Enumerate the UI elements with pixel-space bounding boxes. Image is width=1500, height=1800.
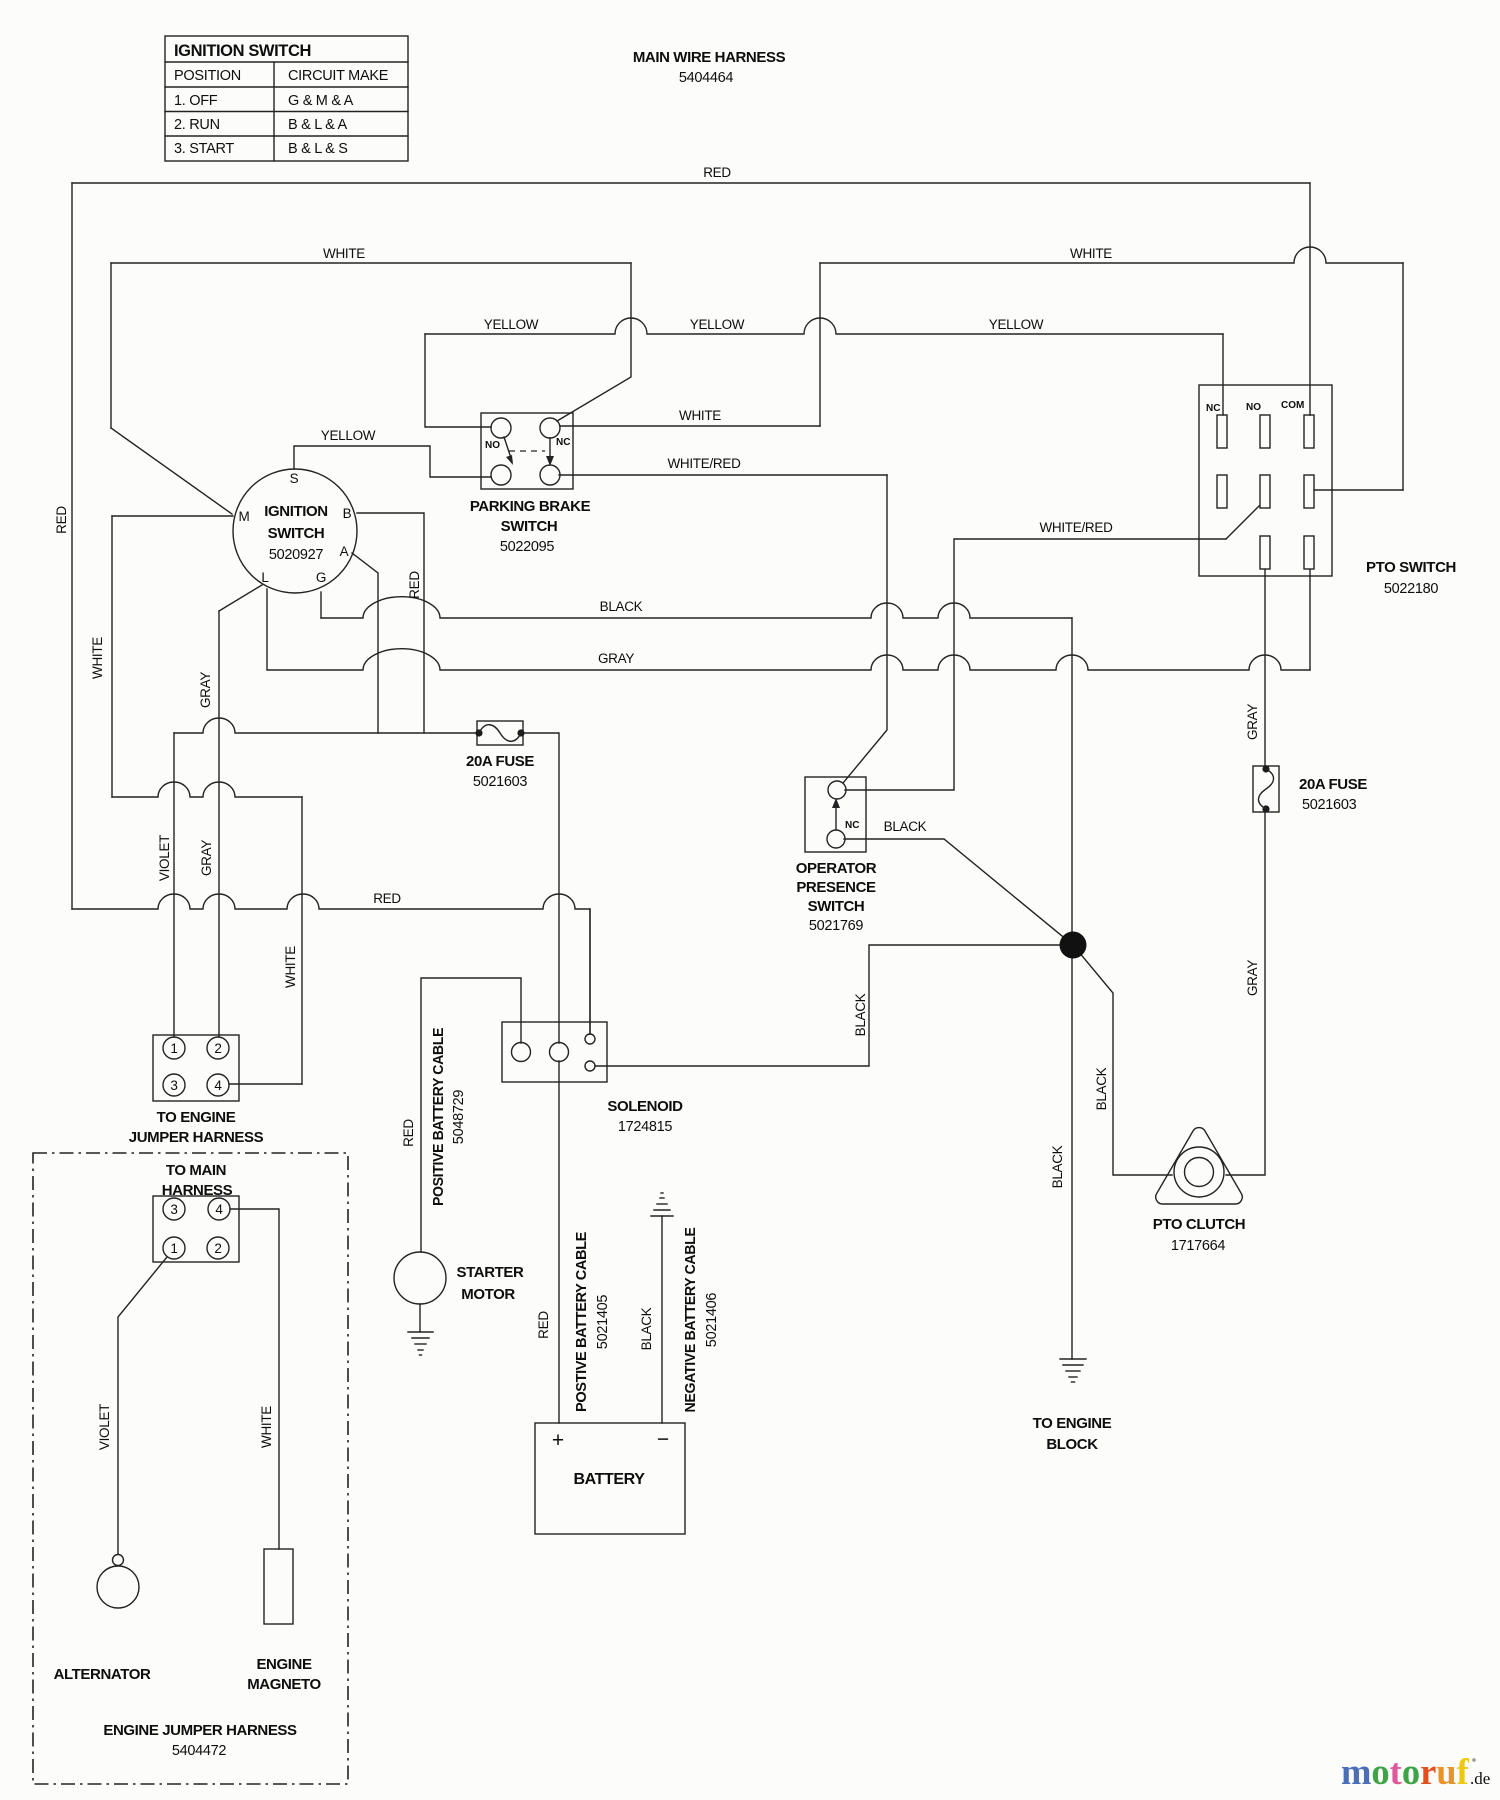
engine jumper harness dash-dot box <box>33 1153 348 1784</box>
wire WHITE vertical x820 up <box>819 263 821 426</box>
arrow up <box>835 804 837 830</box>
svg-text:ENGINE: ENGINE <box>256 1656 312 1673</box>
connector J2 to main harness <box>153 1196 239 1262</box>
svg-text:G & M & A: G & M & A <box>288 93 354 109</box>
wire RED left vertical <box>71 183 73 909</box>
svg-text:TO ENGINE: TO ENGINE <box>1033 1415 1112 1432</box>
svg-text:NC: NC <box>845 820 859 831</box>
svg-text:MAGNETO: MAGNETO <box>247 1676 321 1693</box>
starter motor M1 <box>394 1252 446 1304</box>
svg-text:5020927: 5020927 <box>269 547 324 563</box>
svg-text:5021603: 5021603 <box>473 774 528 790</box>
ground negative battery cable (inverted) <box>651 1193 673 1216</box>
wire connector1 pin4 to white vertical <box>229 1083 302 1085</box>
svg-text:BLACK: BLACK <box>1094 1067 1109 1110</box>
svg-text:2: 2 <box>214 1241 221 1256</box>
wire WHITE right horizontal (bump over RED x1310) <box>820 247 1403 263</box>
svg-text:COM: COM <box>1281 400 1304 411</box>
wire RED right vertical to PTO COM top pin <box>1309 183 1311 415</box>
svg-text:GRAY: GRAY <box>1245 704 1260 740</box>
svg-text:NO: NO <box>485 440 500 451</box>
svg-text:VIOLET: VIOLET <box>157 835 172 881</box>
svg-text:−: − <box>657 1428 669 1451</box>
wire WHITE vertical x302 <box>301 797 303 1084</box>
svg-text:SOLENOID: SOLENOID <box>607 1098 683 1115</box>
wire WHITE/RED from parking brake to x887 <box>559 474 887 476</box>
svg-text:5021406: 5021406 <box>704 1293 720 1348</box>
wire GRAY from ignition L horizontal y670 (bumps) <box>268 649 1310 670</box>
wire operator presence NC to junction diagonal <box>844 839 1073 945</box>
svg-text:WHITE: WHITE <box>90 637 105 679</box>
svg-text:PARKING BRAKE: PARKING BRAKE <box>470 498 591 515</box>
wire YELLOW vertical left into parking brake NO <box>425 334 491 427</box>
svg-text:BLACK: BLACK <box>639 1307 654 1350</box>
svg-text:1: 1 <box>170 1241 177 1256</box>
svg-text:20A FUSE: 20A FUSE <box>1299 776 1367 793</box>
svg-text:OPERATOR: OPERATOR <box>796 860 877 877</box>
svg-text:WHITE: WHITE <box>679 408 721 423</box>
wire GRAY vertical x219 to connector1 pin2 <box>218 611 220 1037</box>
svg-text:S: S <box>290 471 299 486</box>
svg-text:5048729: 5048729 <box>451 1090 467 1145</box>
svg-text:WHITE/RED: WHITE/RED <box>667 456 741 471</box>
svg-text:YELLOW: YELLOW <box>321 428 376 443</box>
NC arrow <box>549 438 551 460</box>
wire YELLOW right vertical into PTO NC pin <box>1222 334 1224 415</box>
wire WHITE left vertical upper <box>110 263 112 428</box>
wire WHITE vertical x112 down <box>111 516 113 797</box>
pins top row <box>1217 415 1227 448</box>
pins middle row <box>1217 475 1227 508</box>
wire BLACK vertical x1072 to junction <box>1071 618 1073 932</box>
ignition switch IGN1 circle <box>233 469 357 593</box>
ignition switch table <box>165 36 408 161</box>
svg-text:motoruf: motoruf <box>1341 1751 1470 1792</box>
wire YELLOW from ignition S <box>294 446 491 477</box>
svg-text:ALTERNATOR: ALTERNATOR <box>54 1666 151 1683</box>
wire WHITE/RED vertical x887 and diagonal to operator presence switch <box>843 475 887 783</box>
wire WHITE vertical x631 and diagonal to parking brake NC <box>557 263 631 421</box>
svg-text:1. OFF: 1. OFF <box>174 93 218 109</box>
svg-text:MOTOR: MOTOR <box>461 1286 515 1303</box>
engine magneto T1 <box>264 1549 293 1624</box>
wire solenoid right pin to junction (BLACK) <box>595 945 1059 1066</box>
svg-text:.de: .de <box>1470 1769 1490 1788</box>
svg-text:WHITE: WHITE <box>1070 246 1112 261</box>
wire GRAY fuse2 to PTO clutch <box>1226 812 1265 1175</box>
svg-text:WHITE: WHITE <box>259 1406 274 1448</box>
svg-text:BATTERY: BATTERY <box>574 1471 646 1488</box>
wire ignition L vertical to gray <box>266 589 268 670</box>
svg-text:RED: RED <box>407 571 422 599</box>
ground under starter motor <box>408 1332 433 1355</box>
wire RED top horizontal <box>72 182 1310 184</box>
svg-text:POSTIVE BATTERY CABLE: POSTIVE BATTERY CABLE <box>573 1232 590 1412</box>
svg-text:POSITIVE BATTERY CABLE: POSITIVE BATTERY CABLE <box>430 1028 447 1206</box>
wire ignition G vertical <box>320 592 322 618</box>
svg-text:BLACK: BLACK <box>1050 1145 1065 1188</box>
svg-text:SWITCH: SWITCH <box>808 898 865 915</box>
20A fuse F1 <box>475 721 524 745</box>
wire positive battery cable solenoid to starter <box>421 978 521 1252</box>
svg-text:YELLOW: YELLOW <box>989 317 1044 332</box>
svg-text:G: G <box>316 570 326 585</box>
svg-text:1: 1 <box>170 1041 177 1056</box>
svg-text:ENGINE JUMPER HARNESS: ENGINE JUMPER HARNESS <box>103 1722 297 1739</box>
svg-text:STARTER: STARTER <box>457 1264 524 1281</box>
svg-text:L: L <box>261 570 269 585</box>
svg-text:5404464: 5404464 <box>679 70 734 86</box>
wire ignition B horizontal and RED vertical x424 <box>357 513 424 733</box>
wire WHITE from parking brake NC to right <box>560 425 820 427</box>
svg-text:B & L & S: B & L & S <box>288 141 348 157</box>
svg-text:5021769: 5021769 <box>809 918 864 934</box>
svg-text:4: 4 <box>214 1078 222 1093</box>
PTO clutch L1 <box>1156 1128 1243 1204</box>
svg-text:GRAY: GRAY <box>1245 960 1260 996</box>
wire WHITE diagonal to ignition M <box>111 428 232 514</box>
svg-text:PTO CLUTCH: PTO CLUTCH <box>1153 1216 1245 1233</box>
pins bottom row <box>1260 536 1270 569</box>
svg-text:BLACK: BLACK <box>884 819 927 834</box>
solenoid K1 <box>502 1022 607 1082</box>
operator presence switch SW2 <box>805 777 866 852</box>
wire ignition L diagonal to GRAY vertical <box>219 585 262 611</box>
svg-text:SWITCH: SWITCH <box>501 518 558 535</box>
wire RED vertical x590 to solenoid small pin <box>589 909 591 1034</box>
svg-text:TO MAIN: TO MAIN <box>166 1162 226 1179</box>
svg-text:4: 4 <box>215 1202 223 1217</box>
wire junction diagonal to PTO clutch BLACK <box>1073 945 1172 1175</box>
svg-text:POSITION: POSITION <box>174 68 241 84</box>
svg-text:PTO SWITCH: PTO SWITCH <box>1366 559 1456 576</box>
wire fuse1 output to solenoid <box>523 733 559 1043</box>
alternator G1 <box>97 1555 139 1609</box>
svg-text:BLACK: BLACK <box>853 993 868 1036</box>
svg-text:IGNITION: IGNITION <box>264 503 327 520</box>
svg-text:WHITE/RED: WHITE/RED <box>1039 520 1113 535</box>
20A fuse F2 <box>1253 765 1279 812</box>
svg-text:5404472: 5404472 <box>172 1743 227 1759</box>
parking brake switch SW1 <box>481 413 573 489</box>
battery BT1 <box>535 1423 685 1534</box>
wire negative battery cable <box>661 1216 663 1423</box>
svg-text:NEGATIVE BATTERY CABLE: NEGATIVE BATTERY CABLE <box>682 1227 699 1412</box>
wire PTO COM middle pin to white vertical <box>1314 489 1403 491</box>
wire connector2 pin1 to alternator VIOLET <box>118 1257 167 1554</box>
wire WHITE horizontal y797 (bumps over VIOLET, GRAY) <box>112 782 302 797</box>
svg-text:NC: NC <box>556 437 570 448</box>
svg-text:+: + <box>552 1429 564 1452</box>
svg-text:20A FUSE: 20A FUSE <box>466 753 534 770</box>
wire ignition A diagonal and vertical <box>352 553 378 733</box>
svg-text:3: 3 <box>170 1202 177 1217</box>
wire GRAY vertical to PTO bottom pin col3 <box>1309 570 1311 670</box>
svg-text:2: 2 <box>214 1041 221 1056</box>
svg-text:WHITE: WHITE <box>283 946 298 988</box>
svg-text:HARNESS: HARNESS <box>162 1182 233 1199</box>
svg-text:VIOLET: VIOLET <box>97 1404 112 1450</box>
svg-text:SWITCH: SWITCH <box>268 525 325 542</box>
svg-text:B & L & A: B & L & A <box>288 117 347 133</box>
svg-text:1717664: 1717664 <box>1171 1238 1226 1254</box>
svg-text:5021405: 5021405 <box>595 1295 611 1350</box>
svg-text:5022180: 5022180 <box>1384 581 1439 597</box>
svg-text:5022095: 5022095 <box>500 539 555 555</box>
ground engine block <box>1060 1359 1086 1382</box>
svg-text:GRAY: GRAY <box>598 651 634 666</box>
svg-text:MAIN WIRE HARNESS: MAIN WIRE HARNESS <box>633 49 786 66</box>
dashed coupling <box>509 450 545 452</box>
svg-text:BLOCK: BLOCK <box>1046 1436 1098 1453</box>
junction dot (black node) <box>1060 932 1087 959</box>
wire starter motor to ground <box>419 1304 421 1332</box>
svg-text:B: B <box>343 506 352 521</box>
svg-text:RED: RED <box>373 891 401 906</box>
wire fuse feed horizontal y733 (bump over GRAY x219) <box>174 718 477 733</box>
svg-text:JUMPER HARNESS: JUMPER HARNESS <box>129 1129 264 1146</box>
svg-text:WHITE: WHITE <box>323 246 365 261</box>
wire WHITE left horizontal <box>111 262 631 264</box>
svg-text:5021603: 5021603 <box>1302 797 1357 813</box>
wire VIOLET vertical x174 from connector1 pin1 <box>173 733 175 1037</box>
wire YELLOW upper horizontal (bumps over x631, x820) <box>425 318 1223 334</box>
svg-text:RED: RED <box>703 165 731 180</box>
svg-text:RED: RED <box>536 1311 551 1339</box>
svg-text:GRAY: GRAY <box>199 840 214 876</box>
svg-text:RED: RED <box>401 1119 416 1147</box>
svg-text:YELLOW: YELLOW <box>484 317 539 332</box>
svg-text:1724815: 1724815 <box>618 1119 673 1135</box>
svg-text:PRESENCE: PRESENCE <box>796 879 876 896</box>
svg-text:TO ENGINE: TO ENGINE <box>157 1109 236 1126</box>
connector J1 to engine jumper harness <box>153 1035 239 1101</box>
svg-text:M: M <box>239 509 250 524</box>
wire BLACK from ignition G horizontal y618 (wide bump over A,B wires; bumps x888,x954) <box>321 597 1072 618</box>
wire M terminal horizontal <box>112 515 233 517</box>
NO arrow <box>504 437 512 461</box>
wire BLACK vertical to engine block ground <box>1071 932 1073 1359</box>
svg-text:A: A <box>340 544 349 559</box>
svg-text:RED: RED <box>54 506 69 534</box>
svg-text:NC: NC <box>1206 403 1220 414</box>
lever diagonal <box>1226 506 1259 539</box>
svg-text:GRAY: GRAY <box>198 672 213 708</box>
svg-text:2. RUN: 2. RUN <box>174 117 220 133</box>
svg-text:3: 3 <box>170 1078 177 1093</box>
svg-text:NO: NO <box>1246 402 1261 413</box>
svg-text:IGNITION SWITCH: IGNITION SWITCH <box>174 42 311 60</box>
wire solenoid to battery plus <box>558 1061 560 1423</box>
wire RED bottom horizontal to fuse branch (bumps over VIOLET, GRAY, WHITE, fuse wire) <box>72 894 590 1034</box>
svg-text:YELLOW: YELLOW <box>690 317 745 332</box>
svg-text:BLACK: BLACK <box>600 599 643 614</box>
wire WHITE vertical x1403 to PTO COM pin <box>1402 263 1404 490</box>
svg-text:3. START: 3. START <box>174 141 234 157</box>
svg-text:CIRCUIT MAKE: CIRCUIT MAKE <box>288 68 389 84</box>
PTO switch SW3 <box>1199 385 1332 576</box>
wire connector2 pin4 to engine magneto WHITE <box>230 1209 279 1549</box>
wire WHITE/RED operator presence to PTO lever net <box>845 539 1226 790</box>
wire GRAY PTO bottom pin col2 down to fuse2 <box>1264 570 1266 766</box>
